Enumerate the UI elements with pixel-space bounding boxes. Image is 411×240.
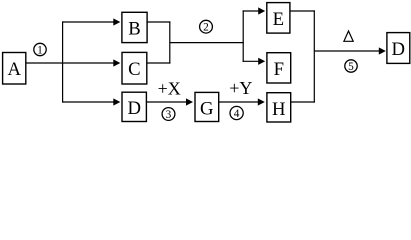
wire final into D xyxy=(314,47,386,54)
box D final xyxy=(387,33,410,64)
wire branch vertical xyxy=(62,21,64,102)
box G xyxy=(195,92,219,121)
wire BC merge vertical xyxy=(169,21,171,63)
svg-text:H: H xyxy=(272,99,286,120)
box B xyxy=(122,12,147,42)
svg-text:A: A xyxy=(7,59,21,80)
wire branch to D xyxy=(62,98,120,105)
label triangle delta xyxy=(344,31,353,41)
svg-text:5: 5 xyxy=(348,61,354,73)
svg-text:C: C xyxy=(128,59,140,80)
svg-text:1: 1 xyxy=(37,44,43,56)
wire EF split vertical xyxy=(242,10,244,62)
svg-text:4: 4 xyxy=(234,108,240,120)
svg-text:+X: +X xyxy=(158,79,181,99)
label circled 4 xyxy=(230,106,243,120)
svg-text:D: D xyxy=(392,39,406,60)
svg-text:3: 3 xyxy=(166,109,172,121)
wire A to branch node and into C xyxy=(26,59,121,66)
svg-text:D: D xyxy=(127,98,141,119)
svg-text:2: 2 xyxy=(203,22,209,34)
wire H out xyxy=(291,101,315,103)
wire D to G xyxy=(146,98,193,105)
wire merged line 2 xyxy=(170,42,244,44)
wire branch to B xyxy=(62,18,120,25)
wire G to H xyxy=(219,98,265,105)
wire C out xyxy=(147,62,171,64)
wire B out xyxy=(147,21,170,23)
svg-text:B: B xyxy=(128,19,140,40)
svg-text:G: G xyxy=(200,98,214,119)
box H xyxy=(267,93,291,122)
svg-text:+Y: +Y xyxy=(229,78,252,98)
wire EFH merge vertical xyxy=(313,10,315,102)
wire E out xyxy=(290,10,315,12)
label circled 3 xyxy=(162,108,175,121)
svg-text:E: E xyxy=(273,9,284,30)
label circled 5 xyxy=(345,60,357,73)
box A xyxy=(3,53,26,85)
box E xyxy=(267,3,290,33)
label circled 1 xyxy=(34,43,46,56)
wire into E xyxy=(243,7,266,14)
box C xyxy=(122,52,147,84)
label circled 2 xyxy=(200,20,213,33)
wire into F xyxy=(243,58,266,65)
svg-text:F: F xyxy=(274,59,284,80)
box D xyxy=(122,92,146,121)
box F xyxy=(267,53,291,83)
